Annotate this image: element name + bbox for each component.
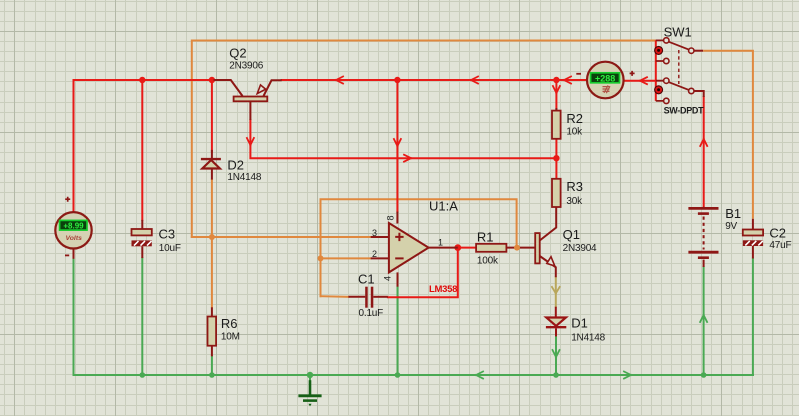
current arrow green left at 476,375 [476, 372, 483, 379]
svg-text:1: 1 [438, 237, 443, 247]
voltmeter VM1 [55, 197, 91, 259]
current arrow red left on top rail at 471 [471, 77, 478, 84]
battery B1 [688, 206, 741, 267]
current arrow red up on B1 wire [700, 139, 707, 146]
wire: orange SW1 pole1 to C2 [703, 51, 753, 219]
svg-text:B1: B1 [725, 206, 741, 221]
junction dot ground rail at op-amp pin4 [395, 372, 401, 378]
svg-text:R6: R6 [221, 316, 238, 331]
current arrow red left meter to SW1 [640, 77, 647, 84]
wire: green R6 to rail [211, 356, 213, 375]
svg-text:D2: D2 [227, 157, 244, 172]
wire: orange feedback loop node B to R1 right node [321, 199, 517, 296]
node A junction dot (orange) [209, 234, 215, 240]
wire: red top rail left segment + voltmeter drop [74, 80, 229, 214]
svg-text:C1: C1 [358, 272, 375, 287]
junction dot ground rail at ground symbol [307, 372, 313, 378]
wire: green C2 to rail [752, 259, 754, 376]
svg-text:47uF: 47uF [769, 240, 791, 251]
current arrow green right at 631,375 [624, 372, 631, 379]
wire: green C3 to rail [141, 258, 143, 375]
current arrow red down Q2 base [247, 138, 254, 145]
svg-text:10k: 10k [566, 127, 583, 138]
resistor R1 [476, 230, 535, 267]
svg-text:2N3906: 2N3906 [229, 60, 263, 71]
svg-text:100k: 100k [477, 256, 499, 267]
wire: green voltmeter to rail [73, 259, 75, 375]
wire: red op-amp output to R1 [458, 247, 476, 249]
wire: green op-amp pin4 to rail [397, 287, 399, 375]
svg-text:Q1: Q1 [563, 227, 580, 242]
svg-text:0.1uF: 0.1uF [359, 308, 384, 319]
svg-text:U1:A: U1:A [429, 199, 458, 214]
current arrow red left on top rail at 336 [336, 77, 343, 84]
junction dot ground rail at R6 [209, 372, 215, 378]
svg-text:Volts: Volts [66, 235, 83, 242]
diode D1 (1N4148) [546, 307, 606, 344]
svg-text:SW-DPDT: SW-DPDT [664, 106, 705, 116]
wire: red R2 bottom / R3 top [555, 139, 557, 179]
wire: orange node A row to op-amp pin3 [192, 236, 371, 238]
current arrow red down on pin8 drop [394, 139, 401, 146]
junction dot ground rail at B1 [701, 372, 707, 378]
transistor Q1 (2N3904) [535, 207, 597, 277]
wire: khaki Q1 emitter to D1 [555, 277, 557, 306]
current arrow khaki down [552, 287, 560, 294]
current arrow green up on B1 leg [700, 315, 707, 322]
wire: orange D2 bottom to node A to R6 [211, 180, 213, 308]
svg-text:+288: +288 [595, 73, 615, 83]
resistor R2 [552, 108, 583, 139]
svg-text:R3: R3 [566, 179, 583, 194]
wire: red Vcc drop to op-amp pin8 [396, 80, 398, 212]
capacitor C1 [348, 272, 388, 319]
svg-text:2N3904: 2N3904 [563, 243, 597, 254]
junction dot top rail at R2 [553, 77, 559, 83]
node B junction dot (orange) [318, 255, 324, 261]
svg-text:+8.99: +8.99 [63, 222, 84, 231]
switch SW1 (SW-DPDT) [655, 25, 705, 116]
wire: red top rail right segment Q2 to ammeter [282, 79, 588, 81]
junction dot ground rail at C3 [140, 372, 146, 378]
svg-text:C2: C2 [769, 226, 786, 241]
transistor Q2 (2N3906) [214, 46, 282, 121]
capacitor C2 [743, 219, 792, 259]
node output junction dot [454, 244, 461, 251]
capacitor C3 [132, 220, 181, 258]
junction dot top rail at C3 [139, 77, 145, 83]
junction dot top rail at D2 [209, 77, 215, 83]
svg-text:4: 4 [383, 276, 393, 281]
svg-text:8: 8 [385, 215, 395, 220]
svg-text:1N4148: 1N4148 [571, 333, 605, 344]
wire: orange op-amp pin2 to node B [321, 257, 371, 259]
op-amp U1:A (LM358) [371, 199, 459, 295]
ground symbol [309, 375, 311, 382]
svg-text:30k: 30k [566, 196, 583, 207]
current arrow red left on top rail at 564 [564, 77, 571, 84]
resistor R3 [552, 179, 583, 207]
svg-text:10uF: 10uF [159, 243, 181, 254]
wire: orange node B to C1 left [321, 295, 349, 298]
svg-text:R2: R2 [566, 111, 583, 126]
svg-text:9V: 9V [725, 221, 737, 232]
ammeter AM1 [576, 62, 634, 99]
wire: red D2 top drop [211, 80, 213, 152]
wire: red Q2 base row to R2/R3 node [250, 120, 556, 158]
junction dot top rail at pin8 drop [394, 77, 400, 83]
svg-text:SW1: SW1 [664, 25, 692, 40]
wire: orange top rail from node A to SW1 [192, 41, 656, 238]
svg-text:3: 3 [372, 228, 377, 238]
svg-text:LM358: LM358 [429, 284, 457, 295]
resistor R6 [208, 307, 240, 356]
wire: green B1 to rail [703, 267, 705, 375]
svg-text:Q2: Q2 [229, 46, 246, 61]
wire: red C3 top drop [141, 80, 143, 220]
svg-text:D1: D1 [571, 316, 588, 331]
junction dot ground rail at D1 [553, 372, 559, 378]
current arrow red right on base row [404, 155, 411, 162]
wire: red B1 to SW1 pole2 [703, 97, 705, 207]
node R2/R3 junction dot [553, 155, 559, 161]
wire: green D1 to rail [555, 336, 557, 375]
svg-text:10M: 10M [221, 332, 240, 343]
wire: green bottom ground rail [74, 374, 754, 376]
node R1 right / Q1 base junction dot (orange) [514, 245, 520, 251]
svg-text:2: 2 [372, 249, 377, 259]
wire: red output node down to C1 right [388, 248, 458, 298]
wire: red ammeter to SW1 [623, 80, 656, 82]
current arrow red down into R2 [553, 86, 560, 93]
svg-text:R1: R1 [477, 230, 494, 245]
diode D2 (1N4148) [201, 150, 262, 183]
svg-text:C3: C3 [159, 227, 176, 242]
wire: red R2 top [555, 80, 557, 112]
svg-text:1N4148: 1N4148 [227, 172, 261, 183]
current arrow green down on D1 leg [553, 350, 560, 357]
